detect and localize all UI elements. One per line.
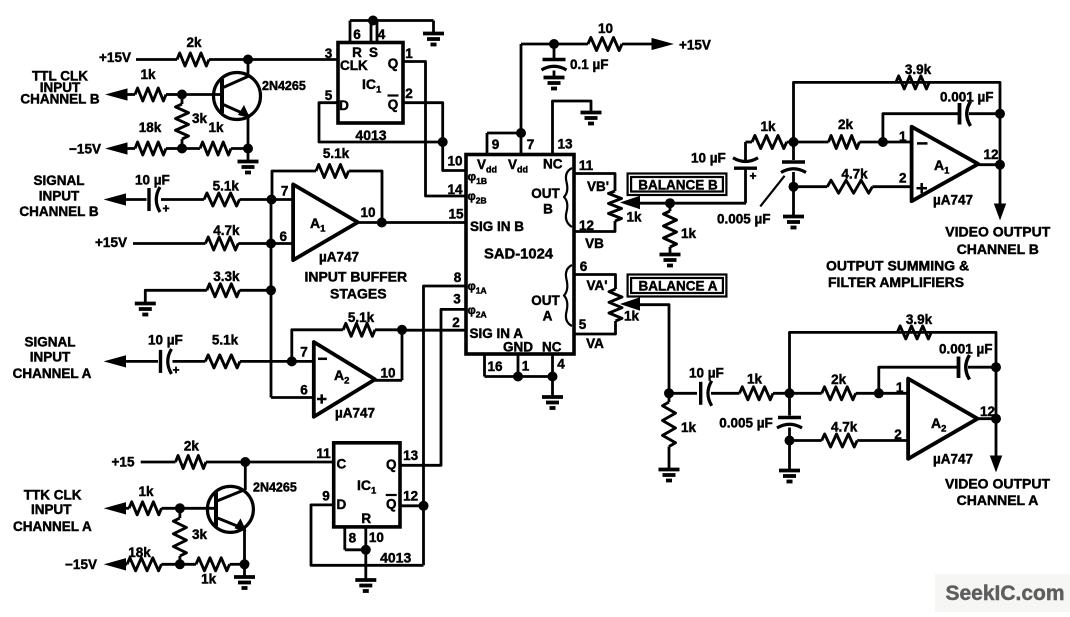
- svg-text:3.9k: 3.9k: [906, 312, 933, 327]
- svg-text:2: 2: [452, 315, 460, 330]
- svg-text:10: 10: [360, 205, 375, 220]
- svg-text:1k: 1k: [681, 226, 697, 241]
- svg-text:10: 10: [598, 21, 613, 36]
- svg-text:µA747: µA747: [335, 406, 375, 421]
- svg-text:−15V: −15V: [65, 557, 97, 572]
- svg-text:CHANNEL B: CHANNEL B: [20, 92, 100, 107]
- svg-text:NC: NC: [543, 157, 563, 172]
- svg-text:1k: 1k: [201, 572, 217, 587]
- svg-text:10: 10: [447, 154, 462, 169]
- svg-text:TTK CLK: TTK CLK: [24, 488, 82, 503]
- svg-text:SAD-1024: SAD-1024: [484, 247, 554, 263]
- svg-text:VB': VB': [587, 179, 609, 194]
- svg-text:GND: GND: [503, 340, 533, 355]
- svg-text:3.3k: 3.3k: [213, 269, 240, 284]
- svg-text:OUT: OUT: [531, 186, 560, 201]
- svg-text:INPUT: INPUT: [31, 502, 72, 517]
- svg-text:1k: 1k: [138, 484, 154, 499]
- svg-text:16: 16: [487, 359, 503, 374]
- svg-text:5.1k: 5.1k: [213, 179, 240, 194]
- svg-text:0.001 µF: 0.001 µF: [940, 90, 994, 105]
- svg-text:0.001 µF: 0.001 µF: [939, 342, 993, 357]
- svg-text:+15: +15: [112, 455, 135, 470]
- svg-text:10 µF: 10 µF: [148, 333, 183, 348]
- svg-text:1k: 1k: [208, 120, 224, 135]
- svg-text:18k: 18k: [128, 545, 151, 560]
- svg-text:NC: NC: [542, 340, 562, 355]
- svg-text:9: 9: [492, 137, 500, 152]
- svg-text:11: 11: [579, 158, 594, 173]
- svg-text:OUTPUT SUMMING &: OUTPUT SUMMING &: [826, 258, 969, 274]
- svg-text:13: 13: [557, 137, 573, 152]
- svg-text:VIDEO OUTPUT: VIDEO OUTPUT: [945, 224, 1050, 240]
- svg-text:µA747: µA747: [933, 452, 973, 467]
- svg-text:14: 14: [447, 182, 463, 197]
- svg-text:+: +: [162, 202, 169, 216]
- svg-text:4.7k: 4.7k: [841, 167, 868, 182]
- svg-text:VIDEO OUTPUT: VIDEO OUTPUT: [945, 476, 1050, 492]
- svg-text:6: 6: [580, 259, 588, 274]
- svg-text:D: D: [337, 497, 347, 512]
- svg-text:CHANNEL A: CHANNEL A: [13, 366, 92, 381]
- svg-text:D: D: [339, 98, 349, 113]
- svg-text:1k: 1k: [140, 67, 156, 82]
- svg-text:SIGNAL: SIGNAL: [33, 173, 84, 188]
- svg-text:5.1k: 5.1k: [212, 333, 239, 348]
- svg-text:4.7k: 4.7k: [831, 420, 858, 435]
- svg-text:SeekIC.com: SeekIC.com: [945, 582, 1064, 605]
- svg-text:2k: 2k: [186, 35, 202, 50]
- svg-text:6: 6: [353, 27, 361, 42]
- svg-text:INPUT: INPUT: [39, 189, 80, 204]
- svg-text:1: 1: [899, 129, 907, 144]
- svg-text:Q: Q: [386, 457, 397, 472]
- svg-text:10 µF: 10 µF: [691, 151, 726, 166]
- svg-text:R: R: [361, 511, 371, 526]
- svg-text:8: 8: [454, 270, 462, 285]
- svg-text:BALANCE B: BALANCE B: [638, 178, 718, 193]
- svg-text:10 µF: 10 µF: [135, 173, 170, 188]
- svg-text:CHANNEL B: CHANNEL B: [19, 204, 99, 219]
- svg-text:8: 8: [349, 531, 357, 546]
- svg-text:+: +: [172, 363, 179, 377]
- svg-text:INPUT BUFFER: INPUT BUFFER: [304, 269, 407, 285]
- svg-text:10 µF: 10 µF: [689, 366, 724, 381]
- svg-text:1: 1: [896, 380, 904, 395]
- svg-text:0.005 µF: 0.005 µF: [717, 212, 771, 227]
- svg-text:1: 1: [405, 46, 413, 61]
- svg-text:VB: VB: [585, 236, 604, 251]
- svg-text:2N4265: 2N4265: [253, 481, 297, 495]
- svg-text:A: A: [543, 309, 553, 324]
- svg-text:5.1k: 5.1k: [348, 310, 375, 325]
- svg-text:6: 6: [280, 229, 288, 244]
- svg-text:10: 10: [380, 366, 395, 381]
- svg-text:6: 6: [300, 383, 308, 398]
- svg-text:SIGNAL: SIGNAL: [24, 335, 75, 350]
- svg-text:1k: 1k: [624, 309, 640, 324]
- svg-text:3.9k: 3.9k: [905, 62, 932, 77]
- svg-text:C: C: [337, 457, 347, 472]
- svg-text:CHANNEL A: CHANNEL A: [957, 492, 1039, 508]
- svg-text:0.005 µF: 0.005 µF: [719, 416, 773, 431]
- svg-text:4: 4: [378, 27, 386, 42]
- svg-text:9: 9: [322, 489, 330, 504]
- svg-text:+15V: +15V: [99, 50, 131, 65]
- svg-text:Q: Q: [388, 97, 399, 112]
- svg-text:FILTER AMPLIFIERS: FILTER AMPLIFIERS: [828, 274, 964, 290]
- svg-text:3k: 3k: [192, 527, 208, 542]
- svg-text:Q: Q: [388, 56, 399, 71]
- svg-text:0.1 µF: 0.1 µF: [570, 57, 609, 72]
- svg-text:2k: 2k: [184, 439, 200, 454]
- svg-text:3: 3: [453, 292, 461, 307]
- svg-text:12: 12: [579, 218, 594, 233]
- svg-text:2: 2: [405, 86, 413, 101]
- svg-text:CHANNEL A: CHANNEL A: [13, 519, 92, 534]
- svg-text:1k: 1k: [626, 210, 642, 225]
- svg-text:11: 11: [316, 446, 331, 461]
- svg-text:7: 7: [281, 184, 289, 199]
- svg-text:OUT: OUT: [531, 293, 560, 308]
- svg-text:1k: 1k: [681, 420, 697, 435]
- svg-text:µA747: µA747: [933, 193, 973, 208]
- svg-text:1: 1: [522, 359, 530, 374]
- svg-text:2k: 2k: [838, 117, 854, 132]
- svg-text:S: S: [369, 45, 378, 60]
- svg-text:3k: 3k: [192, 111, 208, 126]
- svg-text:4: 4: [557, 357, 565, 372]
- svg-text:+15V: +15V: [95, 235, 127, 250]
- svg-text:+: +: [749, 169, 756, 183]
- svg-text:2: 2: [899, 171, 907, 186]
- svg-text:15: 15: [448, 207, 464, 222]
- svg-text:12: 12: [980, 404, 995, 419]
- svg-text:2k: 2k: [831, 372, 847, 387]
- svg-text:B: B: [543, 202, 553, 217]
- svg-text:12: 12: [403, 489, 418, 504]
- svg-text:BALANCE A: BALANCE A: [639, 279, 718, 294]
- svg-text:INPUT: INPUT: [30, 350, 71, 365]
- svg-text:1k: 1k: [760, 119, 776, 134]
- svg-text:STAGES: STAGES: [330, 286, 387, 302]
- svg-text:13: 13: [403, 448, 419, 463]
- svg-text:3: 3: [325, 46, 333, 61]
- svg-text:VA': VA': [587, 278, 608, 293]
- svg-text:SIG IN B: SIG IN B: [470, 219, 524, 234]
- svg-text:2N4265: 2N4265: [262, 79, 306, 93]
- svg-text:2: 2: [894, 427, 902, 442]
- svg-text:5.1k: 5.1k: [323, 146, 350, 161]
- svg-text:5: 5: [579, 317, 587, 332]
- svg-text:12: 12: [983, 147, 998, 162]
- svg-text:µA747: µA747: [319, 250, 359, 265]
- svg-text:+15V: +15V: [679, 38, 711, 53]
- svg-text:CHANNEL B: CHANNEL B: [957, 241, 1039, 257]
- svg-text:7: 7: [527, 137, 535, 152]
- svg-text:1k: 1k: [747, 372, 763, 387]
- svg-text:10: 10: [369, 530, 384, 545]
- svg-text:CLK: CLK: [340, 58, 368, 73]
- svg-text:4013: 4013: [380, 550, 411, 566]
- svg-text:VA: VA: [586, 336, 604, 351]
- svg-text:5: 5: [325, 88, 333, 103]
- svg-text:18k: 18k: [139, 120, 162, 135]
- svg-text:7: 7: [300, 345, 308, 360]
- svg-text:Q: Q: [386, 497, 397, 512]
- svg-text:4.7k: 4.7k: [213, 223, 240, 238]
- svg-text:−15V: −15V: [69, 142, 101, 157]
